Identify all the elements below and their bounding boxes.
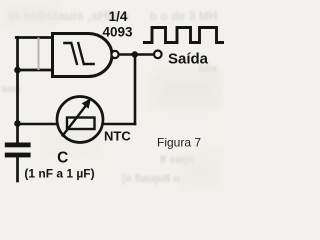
wire: NTC right lead <box>103 123 135 126</box>
wire: output horizontal <box>119 53 155 55</box>
svg-text:(e fiaupi8 o: (e fiaupi8 o <box>122 173 180 185</box>
thermistor NTC circle <box>57 97 103 143</box>
thermistor NTC body rect <box>67 118 95 130</box>
wire: top input horizontal <box>16 36 52 39</box>
node: junction dot output <box>132 51 138 57</box>
wire: capacitor bottom lead <box>16 158 19 182</box>
thermistor NTC arrow <box>62 106 86 137</box>
paper background <box>0 0 224 192</box>
svg-text:C: C <box>57 149 68 166</box>
svg-text:Saída: Saída <box>168 51 209 68</box>
svg-text:(1 nF a 1 µF): (1 nF a 1 µF) <box>24 167 94 181</box>
gate U1 schmitt hysteresis symbol <box>63 42 95 65</box>
svg-text:NTC: NTC <box>104 129 131 144</box>
gate U1 4093 NAND body <box>53 34 113 77</box>
ghost bleed-through text top <box>8 8 217 23</box>
node: junction dot NTC branch <box>14 120 21 127</box>
capacitor C1 plate bottom <box>5 153 31 158</box>
svg-text:b o de 3 MH: b o de 3 MH <box>150 9 217 23</box>
svg-text:1/4: 1/4 <box>109 9 128 24</box>
wire: faint input tie vertical <box>38 39 40 70</box>
gate U1 output bubble <box>111 51 118 58</box>
output terminal circle <box>154 51 162 59</box>
capacitor C1 plate top <box>5 143 31 148</box>
svg-text:4093: 4093 <box>102 25 133 40</box>
svg-text:Figura 7: Figura 7 <box>157 136 201 150</box>
wire: feedback vertical <box>134 55 137 125</box>
ghost bleed-through text bottom right <box>122 154 194 185</box>
waveform square wave <box>143 28 224 43</box>
wire: left rail vertical <box>16 38 19 143</box>
wire: bottom input horizontal <box>18 69 53 72</box>
node: junction dot inputs <box>14 67 21 74</box>
wire: NTC left lead <box>18 123 58 126</box>
